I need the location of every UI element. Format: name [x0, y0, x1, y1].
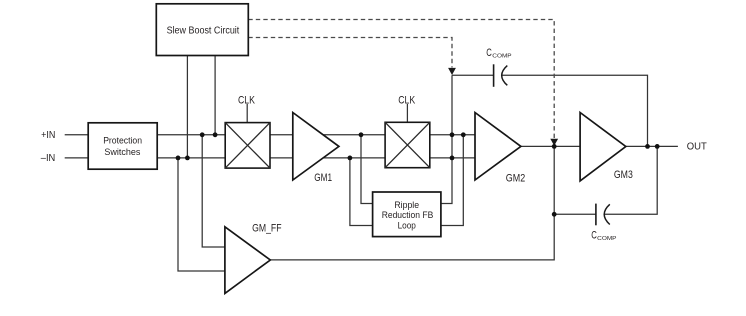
svg-text:C: C	[486, 47, 492, 59]
svg-text:Loop: Loop	[398, 221, 416, 231]
svg-text:Reduction FB: Reduction FB	[382, 210, 434, 220]
svg-text:Switches: Switches	[104, 146, 140, 157]
svg-text:–IN: –IN	[41, 153, 56, 164]
wire GM2 output node down to GM_FF output	[270, 146, 554, 260]
svg-text:COMP: COMP	[597, 236, 616, 242]
chopper mixer 2	[385, 122, 430, 167]
wire +IN stub	[65, 134, 89, 136]
wire lower C_COMP left segment to GM2 output node	[554, 213, 596, 215]
wire ripple loop upper-right connection to C_COMP node	[441, 75, 453, 203]
wire output node down to lower C_COMP right end	[604, 146, 657, 214]
wire dashed arrowhead onto GM2 output node	[550, 139, 558, 146]
svg-text:GM3: GM3	[614, 169, 633, 181]
wire GM2 output to GM3 input	[521, 145, 580, 147]
svg-text:C: C	[591, 230, 597, 242]
junction lower C_COMP left node	[552, 212, 557, 217]
wire CLK tick to first chopper	[246, 104, 248, 123]
junction output node / top C_COMP	[645, 144, 650, 149]
wire top C_COMP left segment	[452, 74, 493, 76]
block Protection Switches	[88, 123, 157, 169]
svg-text:CLK: CLK	[398, 95, 416, 107]
svg-text:+IN: +IN	[41, 130, 55, 141]
wire GM3 output to OUT	[626, 145, 678, 147]
wire GM_FF upper input tap from upper rail	[202, 135, 225, 247]
junction ripple right tap / upper rail	[461, 132, 466, 137]
junction C_COMP vertical / upper rail	[450, 132, 455, 137]
op-amp GM2	[475, 113, 525, 185]
wire upper signal rail from Protection Switches to GM2 input	[157, 134, 476, 136]
junction slew leg / lower rail	[185, 156, 190, 161]
junction output node / bottom C_COMP	[655, 144, 660, 149]
block Ripple Reduction FB Loop	[373, 192, 441, 237]
chopper mixer 1	[225, 123, 270, 169]
wire dashed slew boost upper control line	[248, 20, 554, 139]
junction GM_FF tap / lower rail	[176, 156, 181, 161]
svg-text:Protection: Protection	[103, 135, 142, 146]
svg-text:GM1: GM1	[314, 172, 332, 184]
junction C_COMP vertical / lower rail	[450, 156, 455, 161]
svg-text:CLK: CLK	[238, 95, 256, 107]
junction GM2 output node	[552, 144, 557, 149]
op-amp GM_FF	[225, 222, 282, 293]
wire ripple loop lower-left tap from lower rail	[350, 158, 374, 226]
wire ripple loop upper-left tap from upper rail	[361, 135, 374, 204]
wire dashed arrowhead onto top C_COMP line	[448, 68, 456, 75]
block Slew Boost Circuit	[156, 4, 248, 56]
wire lower signal rail from Protection Switches to GM2 input	[157, 157, 476, 159]
capacitor C_COMP bottom	[591, 204, 616, 242]
svg-text:OUT: OUT	[687, 141, 707, 152]
junction slew leg / upper rail	[213, 132, 218, 137]
svg-text:Slew Boost Circuit: Slew Boost Circuit	[167, 26, 240, 37]
junction GM_FF tap / upper rail	[200, 132, 205, 137]
wire CLK tick to second chopper	[406, 104, 408, 122]
capacitor C_COMP top	[486, 47, 511, 87]
op-amp GM1	[293, 113, 339, 185]
svg-text:GM2: GM2	[506, 172, 525, 184]
svg-text:Ripple: Ripple	[394, 200, 419, 210]
junction ripple left tap / lower rail	[348, 156, 353, 161]
junction ripple left tap / upper rail	[359, 132, 364, 137]
wire top C_COMP right segment to GM3 output vertical	[502, 75, 648, 146]
wire Slew Boost right leg to upper rail	[214, 56, 216, 135]
wire -IN stub	[65, 157, 89, 159]
wire dashed slew boost lower control line	[248, 38, 452, 68]
wire Slew Boost left leg to lower rail	[186, 56, 188, 158]
wire ripple loop lower-right tap to upper rail	[441, 135, 464, 226]
svg-text:GM_FF: GM_FF	[252, 222, 282, 234]
op-amp GM3	[580, 113, 633, 182]
wire GM_FF lower input tap from lower rail	[178, 158, 226, 271]
svg-text:COMP: COMP	[492, 54, 511, 60]
